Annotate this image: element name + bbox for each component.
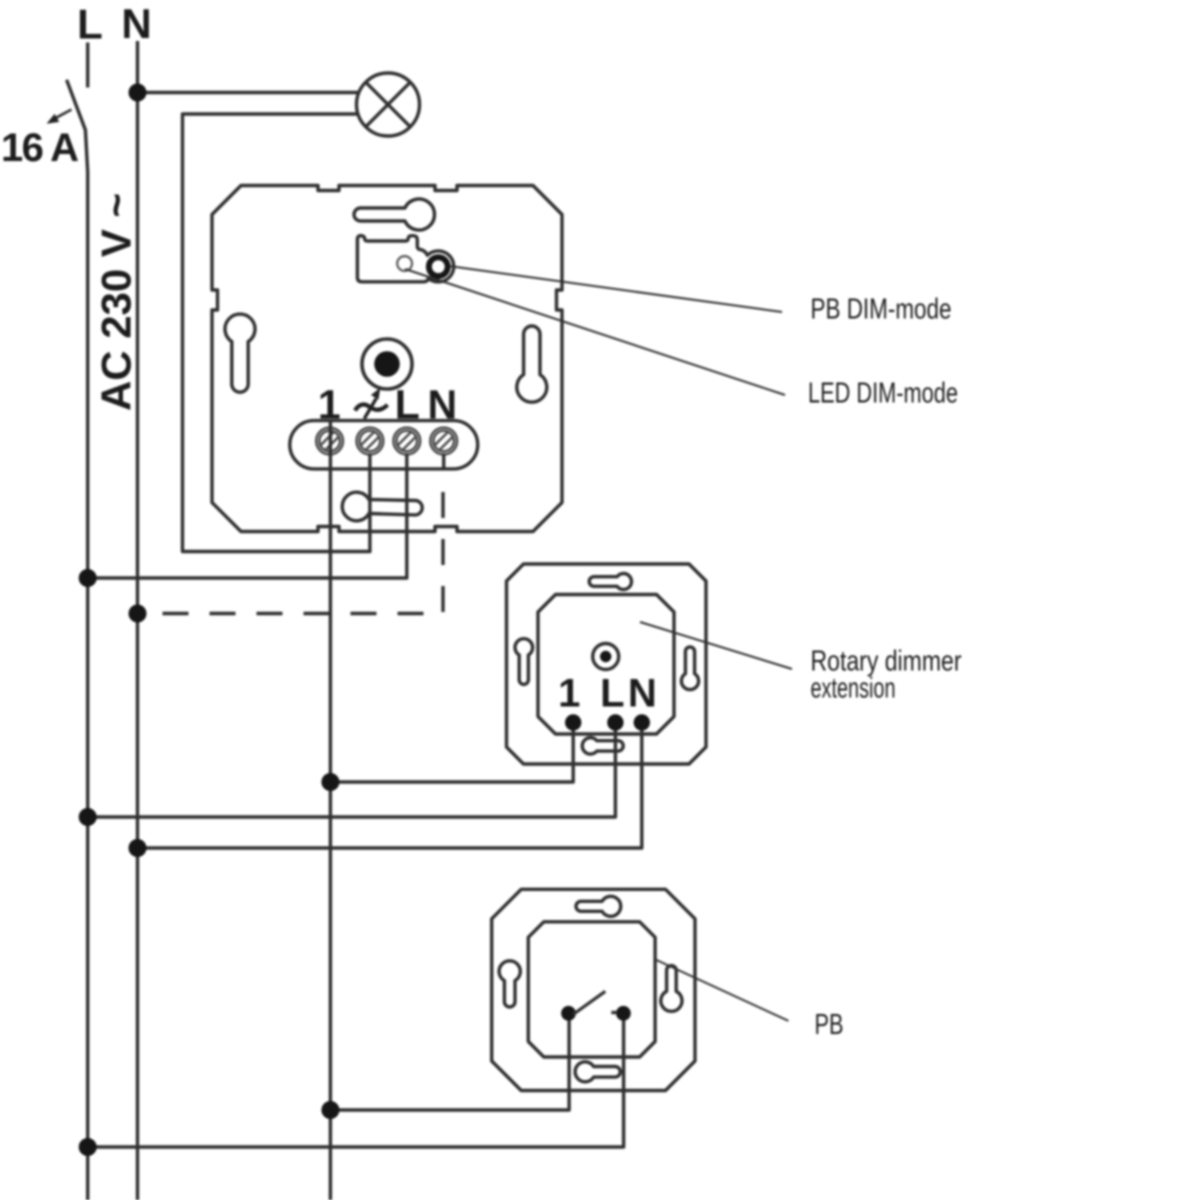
extension terminal dot 1: [565, 714, 581, 730]
terminal screw N: [430, 428, 457, 455]
wire PB contact right: [88, 1016, 624, 1147]
mounting keyhole right (extension): [681, 647, 698, 690]
switch 16A lever: [67, 80, 88, 1200]
svg-text:L: L: [77, 1, 103, 48]
rotary shaft knob (main dimmer): [362, 339, 412, 389]
rotary shaft (extension): [593, 644, 619, 670]
svg-text:N: N: [628, 672, 657, 716]
terminal block stadium (main dimmer): [290, 421, 478, 469]
wire extension terminal L: [88, 726, 616, 817]
mounting slot bottom (PB): [575, 1062, 620, 1082]
svg-text:PB: PB: [815, 1009, 844, 1041]
svg-text:PB DIM-mode: PB DIM-mode: [811, 293, 952, 325]
wire terminal L to L feed: [88, 454, 407, 578]
junction L-extension: [79, 808, 97, 826]
svg-text:1: 1: [558, 672, 580, 716]
wire extension terminal N: [138, 726, 642, 848]
PB switch contact right: [616, 1006, 631, 1021]
extension terminal dot N: [634, 714, 650, 730]
mounting keyhole left (main dimmer): [225, 314, 255, 392]
svg-text:N: N: [427, 382, 457, 428]
svg-text:extension: extension: [811, 673, 896, 705]
PB DIM-mode potentiometer (dark ring): [429, 257, 448, 276]
rotary dimmer extension outer frame: [507, 564, 707, 764]
terminal label arrow symbol: [355, 388, 388, 419]
PB push-button unit inner body: [528, 922, 655, 1057]
terminal screw 1: [316, 428, 343, 455]
mounting keyhole right (PB): [661, 966, 682, 1012]
junction N-lamp: [129, 84, 147, 102]
mounting keyhole right (main dimmer): [517, 326, 547, 402]
leader line PB DIM-mode: [451, 266, 782, 312]
PB switch lever: [573, 991, 605, 1014]
svg-text:L: L: [395, 382, 420, 428]
svg-text:16 A: 16 A: [1, 126, 79, 170]
wire N drop: [136, 41, 139, 1200]
mounting slot bottom (extension): [582, 738, 623, 754]
svg-text:AC 230 V ~: AC 230 V ~: [93, 193, 140, 411]
wire extension terminal 1: [330, 726, 573, 782]
junction L-dimmer: [79, 569, 97, 587]
mounting keyhole left (extension): [515, 639, 533, 685]
junction L-PB: [79, 1138, 97, 1156]
leader line rotary dimmer extension: [640, 622, 792, 669]
wire PB contact left: [330, 1016, 569, 1110]
main dimmer insert body: [212, 186, 562, 532]
junction wire1-PB: [321, 1101, 339, 1119]
wire terminal 1 drop: [329, 420, 332, 1200]
switch actuation arrow: [56, 110, 72, 118]
leader line LED DIM-mode: [405, 269, 785, 395]
rotary dimmer extension inner body: [538, 595, 674, 735]
wire terminal N dashed to N feed: [138, 492, 444, 614]
leader line PB: [655, 959, 788, 1021]
mounting keyhole left (PB): [499, 961, 520, 1007]
wire N to lamp: [138, 91, 369, 94]
svg-text:L: L: [600, 672, 624, 716]
PB DIM-mode adjuster box: [357, 236, 453, 282]
wire L drop (feed with 16A switch): [86, 43, 89, 88]
extension terminal dot L: [607, 714, 623, 730]
LED DIM-mode indicator: [397, 256, 412, 271]
svg-text:N: N: [121, 0, 151, 47]
mounting slot top (PB): [576, 896, 621, 916]
junction N-dimmer (dashed): [129, 605, 147, 623]
mounting slot top (extension): [589, 574, 631, 590]
PB switch contact left: [561, 1006, 576, 1021]
junction wire1-extension: [321, 773, 339, 791]
PB push-button unit outer frame: [492, 889, 695, 1090]
mounting slot top (main dimmer): [354, 199, 434, 230]
lamp symbol: [357, 73, 420, 136]
wire terminal N stub: [442, 454, 445, 470]
junction N-extension: [129, 839, 147, 857]
terminal screw L: [393, 428, 420, 455]
terminal screw arrow (dimmed output): [357, 428, 384, 455]
svg-text:LED DIM-mode: LED DIM-mode: [808, 378, 958, 410]
mounting slot bottom (main dimmer): [342, 492, 422, 521]
wire lamp to dimmer output terminal: [183, 114, 370, 552]
